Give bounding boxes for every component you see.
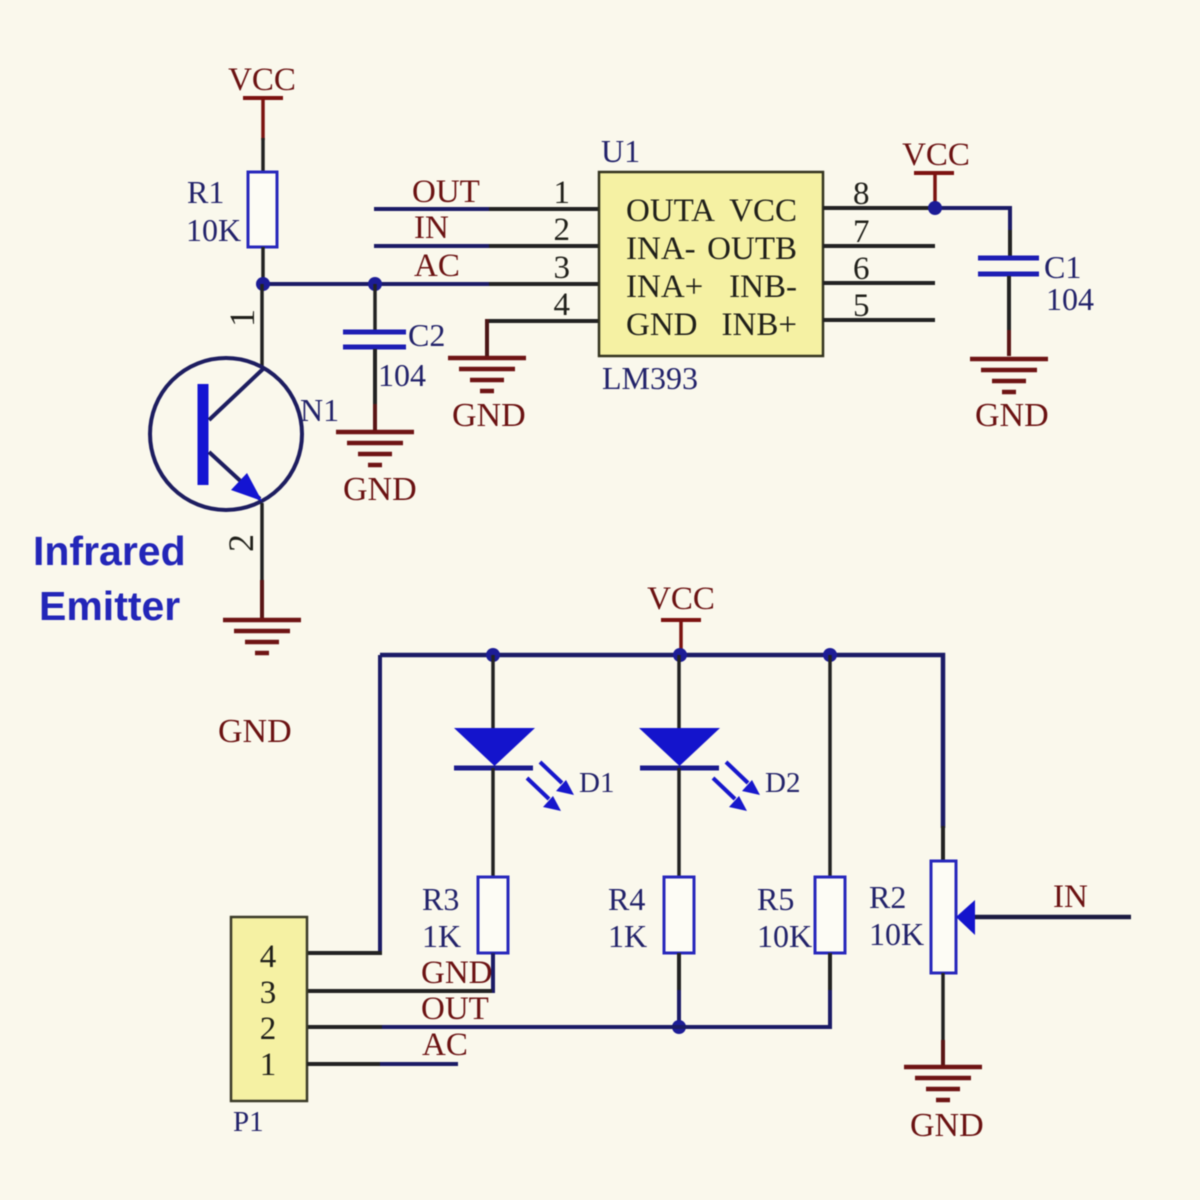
svg-text:2: 2 <box>260 1011 277 1047</box>
capacitor C2 104 <box>343 317 445 393</box>
power VCC right <box>902 137 970 205</box>
svg-text:IN: IN <box>414 210 449 246</box>
svg-text:7: 7 <box>853 214 870 250</box>
wire left rail down to P1 pin4 <box>378 655 382 953</box>
svg-text:D1: D1 <box>579 767 614 799</box>
svg-text:OUTA: OUTA <box>626 193 715 229</box>
svg-text:GND: GND <box>975 397 1049 434</box>
wire node to transistor collector <box>260 284 264 368</box>
svg-text:2: 2 <box>221 534 261 552</box>
svg-text:AC: AC <box>414 248 460 284</box>
svg-text:OUT: OUT <box>412 174 480 210</box>
svg-text:C1: C1 <box>1044 249 1081 285</box>
svg-text:1: 1 <box>260 1047 277 1083</box>
svg-text:GND: GND <box>626 307 698 343</box>
svg-text:10K: 10K <box>186 212 241 248</box>
ground GND emitter <box>218 620 301 750</box>
resistor R5 10K <box>757 877 845 954</box>
svg-text:10K: 10K <box>869 916 924 952</box>
svg-text:5: 5 <box>853 288 870 324</box>
wire pin4 to ground <box>487 319 601 323</box>
svg-text:GND: GND <box>910 1107 984 1144</box>
svg-text:GND: GND <box>421 955 493 991</box>
wire pin6 stub <box>823 281 935 285</box>
wire pin7 stub <box>823 244 935 248</box>
svg-text:R4: R4 <box>608 881 645 917</box>
op-amp U1 LM393 body <box>599 133 823 396</box>
svg-text:1K: 1K <box>422 918 461 954</box>
label Infrared Emitter <box>33 528 186 629</box>
svg-text:OUT: OUT <box>421 991 489 1027</box>
wire C1 to ground <box>1007 276 1011 330</box>
node junction at R1/base <box>256 277 270 291</box>
svg-text:GND: GND <box>452 397 526 434</box>
svg-text:R2: R2 <box>869 879 906 915</box>
resistor R1 10K <box>186 172 277 248</box>
wire net AC horizontal <box>263 282 491 286</box>
svg-text:R3: R3 <box>422 881 459 917</box>
connector P1 body <box>231 917 307 1138</box>
svg-text:OUTB: OUTB <box>707 231 797 267</box>
node junction rail R5 <box>823 648 837 662</box>
transistor N1 <box>150 358 339 510</box>
U1 pin names row4 GND INB+ <box>626 307 797 343</box>
wire pin5 stub <box>823 318 935 322</box>
svg-text:2: 2 <box>554 212 571 248</box>
svg-text:INB-: INB- <box>729 269 797 305</box>
wire rail to R5 <box>828 655 832 877</box>
svg-text:4: 4 <box>554 287 571 323</box>
svg-text:R5: R5 <box>757 881 794 917</box>
wire VCC rail <box>380 655 943 828</box>
svg-text:VCC: VCC <box>902 137 970 173</box>
wire VCC to R1 <box>261 138 265 172</box>
svg-text:INA-: INA- <box>626 231 696 267</box>
potentiometer R2 10K <box>869 861 975 973</box>
svg-text:10K: 10K <box>757 918 812 954</box>
node junction pin8/VCC <box>928 201 942 215</box>
wire net IN to pin2 <box>374 244 491 248</box>
resistor R3 1K <box>422 877 508 954</box>
svg-text:D2: D2 <box>765 767 800 799</box>
svg-text:VCC: VCC <box>729 193 797 229</box>
capacitor C1 104 <box>978 249 1094 317</box>
ground GND C1 <box>970 359 1049 434</box>
wire R2 to ground <box>941 973 945 1040</box>
svg-text:INB+: INB+ <box>722 307 797 343</box>
wire rail to D1 <box>491 655 495 728</box>
svg-text:VCC: VCC <box>647 581 715 617</box>
LED D2 <box>639 728 800 811</box>
svg-text:VCC: VCC <box>228 62 296 98</box>
svg-text:3: 3 <box>260 975 277 1011</box>
svg-text:IN: IN <box>1053 879 1088 915</box>
wire P1 pin1 AC stub <box>307 1062 382 1066</box>
wire net OUT to pin1 <box>374 207 491 211</box>
svg-text:P1: P1 <box>233 1106 264 1138</box>
node junction rail VCC/D2 <box>673 648 687 662</box>
svg-text:104: 104 <box>378 357 426 393</box>
wire R3 to P1 pin3 <box>490 953 493 991</box>
svg-text:1: 1 <box>222 309 262 327</box>
ground GND C2 <box>336 432 417 508</box>
svg-text:U1: U1 <box>601 133 640 169</box>
wire R4 to OUT net <box>677 953 681 992</box>
svg-text:6: 6 <box>853 251 870 287</box>
svg-text:Infrared: Infrared <box>33 528 186 574</box>
svg-text:GND: GND <box>218 713 292 750</box>
svg-text:Emitter: Emitter <box>39 583 180 629</box>
resistor R4 1K <box>608 877 694 954</box>
power VCC top-left <box>228 62 296 140</box>
ground GND pin4 <box>448 358 526 434</box>
wire IN to wiper <box>975 915 1131 920</box>
svg-text:INA+: INA+ <box>626 269 703 305</box>
svg-text:4: 4 <box>260 939 277 975</box>
LED D1 <box>454 728 614 811</box>
svg-text:C2: C2 <box>408 317 445 353</box>
svg-text:N1: N1 <box>300 392 339 428</box>
svg-text:GND: GND <box>343 471 417 508</box>
ground GND R2 <box>904 1067 984 1144</box>
wire rail to D2 <box>677 655 681 728</box>
svg-text:8: 8 <box>853 176 870 212</box>
node junction at C2 <box>368 277 382 291</box>
wire C2 to ground <box>373 349 377 404</box>
wire R5 to OUT net <box>828 953 832 992</box>
svg-text:104: 104 <box>1046 281 1094 317</box>
wire D1 to R3 <box>491 768 495 877</box>
U1 pin names row1 OUTA VCC <box>626 193 797 229</box>
wire pin8 to VCC node <box>823 206 935 210</box>
wire R1 to base node <box>261 247 265 284</box>
svg-text:1: 1 <box>554 175 571 211</box>
wire emitter to ground <box>260 503 264 580</box>
node junction rail D1 <box>486 648 500 662</box>
svg-text:AC: AC <box>422 1027 468 1063</box>
svg-text:LM393: LM393 <box>602 360 698 396</box>
svg-text:R1: R1 <box>187 174 224 210</box>
wire D2 to R4 <box>677 768 681 877</box>
U1 pin names row2 INA- OUTB <box>626 231 797 267</box>
svg-text:1K: 1K <box>608 918 647 954</box>
power VCC bottom <box>647 581 715 652</box>
svg-text:3: 3 <box>554 250 571 286</box>
wire node to C2 <box>373 284 377 332</box>
U1 pin names row3 INA+ INB- <box>626 269 797 305</box>
node junction R4/OUT <box>672 1020 686 1034</box>
